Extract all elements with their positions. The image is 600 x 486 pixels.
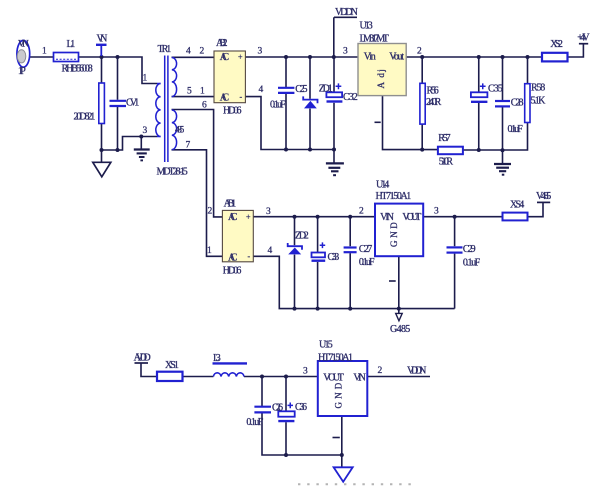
svg-text:0.1uF: 0.1uF [463,258,481,269]
svg-text:485: 485 [175,125,185,135]
svg-text:VN: VN [97,34,108,45]
svg-text:C36: C36 [295,402,307,413]
svg-text:HT7150A1: HT7150A1 [318,353,353,364]
svg-text:510R: 510R [439,157,454,168]
svg-text:0.1uF: 0.1uF [246,417,263,428]
svg-text:1: 1 [207,246,212,256]
svg-text:20D821: 20D821 [74,112,96,123]
svg-text:CV1: CV1 [126,98,139,109]
svg-text:Vout: Vout [389,52,404,63]
svg-text:AC: AC [228,212,238,223]
svg-text:C33: C33 [328,252,340,263]
svg-text:3: 3 [343,47,348,57]
svg-text:XS2: XS2 [550,39,563,50]
svg-text:HD06: HD06 [223,266,242,277]
svg-text:1: 1 [42,47,47,57]
svg-text:XS4: XS4 [510,200,524,211]
svg-text:3: 3 [434,207,439,217]
svg-text:G485: G485 [390,324,410,335]
svg-text:U15: U15 [319,340,333,351]
svg-text:3: 3 [143,126,148,136]
svg-text:VIN: VIN [18,39,29,49]
svg-text:6: 6 [202,101,207,111]
svg-text:3: 3 [266,207,271,217]
svg-text:2: 2 [359,207,364,217]
svg-text:AVDD: AVDD [134,353,151,364]
svg-text:C32: C32 [343,92,358,103]
svg-text:1: 1 [200,87,205,97]
svg-text:C29: C29 [463,244,476,255]
svg-text:AC: AC [220,52,230,63]
svg-text:L3: L3 [213,353,221,364]
svg-text:VOUT: VOUT [402,212,421,223]
svg-text:3: 3 [303,367,308,377]
svg-text:G N D: G N D [334,382,344,408]
svg-text:VIN: VIN [380,212,394,223]
svg-text:240R: 240R [426,97,442,108]
svg-text:LM317MT: LM317MT [360,34,389,45]
svg-text:R58: R58 [531,83,545,94]
svg-text:ZD2: ZD2 [295,231,309,242]
svg-text:7: 7 [186,141,191,151]
svg-text:U13: U13 [360,21,373,32]
svg-text:MDT28-15: MDT28-15 [157,167,188,178]
svg-text:U14: U14 [376,180,389,191]
svg-text:C35: C35 [488,84,503,95]
svg-text:C27: C27 [359,244,372,255]
svg-text:ZD1: ZD1 [319,84,333,95]
svg-text:TR1: TR1 [158,44,172,55]
svg-text:XS1: XS1 [165,360,179,371]
svg-text:AB2: AB2 [216,38,227,49]
svg-text:4: 4 [268,246,273,256]
svg-text:0.1uF: 0.1uF [508,124,524,135]
svg-text:0.1uF: 0.1uF [270,100,286,111]
svg-text:G N D: G N D [389,222,399,247]
svg-text:VDDN: VDDN [335,7,358,18]
svg-text:VIN: VIN [353,373,365,384]
svg-text:VDDN: VDDN [407,366,426,377]
svg-text:1P: 1P [18,66,26,77]
svg-text:AC: AC [228,253,238,264]
svg-text:5: 5 [187,87,192,97]
svg-text:Vin: Vin [364,52,376,63]
svg-text:2: 2 [208,207,213,217]
svg-text:HD06: HD06 [223,106,241,117]
svg-text:4: 4 [259,85,264,95]
svg-text:AB1: AB1 [224,199,236,210]
svg-text:+4V: +4V [577,33,590,44]
svg-text:1: 1 [143,74,148,84]
svg-text:3: 3 [258,47,263,57]
svg-text:RHB 56008: RHB 56008 [62,64,93,75]
svg-text:2: 2 [417,47,422,57]
svg-text:L1: L1 [67,39,76,50]
svg-text:0.1uF: 0.1uF [359,257,375,268]
svg-text:VOUT: VOUT [323,373,343,384]
svg-text:V485: V485 [536,191,551,202]
svg-text:HT7150A1: HT7150A1 [376,191,412,202]
svg-text:2: 2 [200,47,205,57]
svg-text:C25: C25 [295,84,307,95]
svg-text:R57: R57 [438,133,450,144]
svg-text:AC: AC [220,93,230,104]
svg-text:C26: C26 [272,403,283,414]
svg-text:4: 4 [186,47,191,57]
svg-text:5.1K: 5.1K [531,96,547,107]
svg-text:C28: C28 [511,98,524,109]
svg-text:R56: R56 [427,86,439,97]
svg-text:2: 2 [378,366,383,376]
